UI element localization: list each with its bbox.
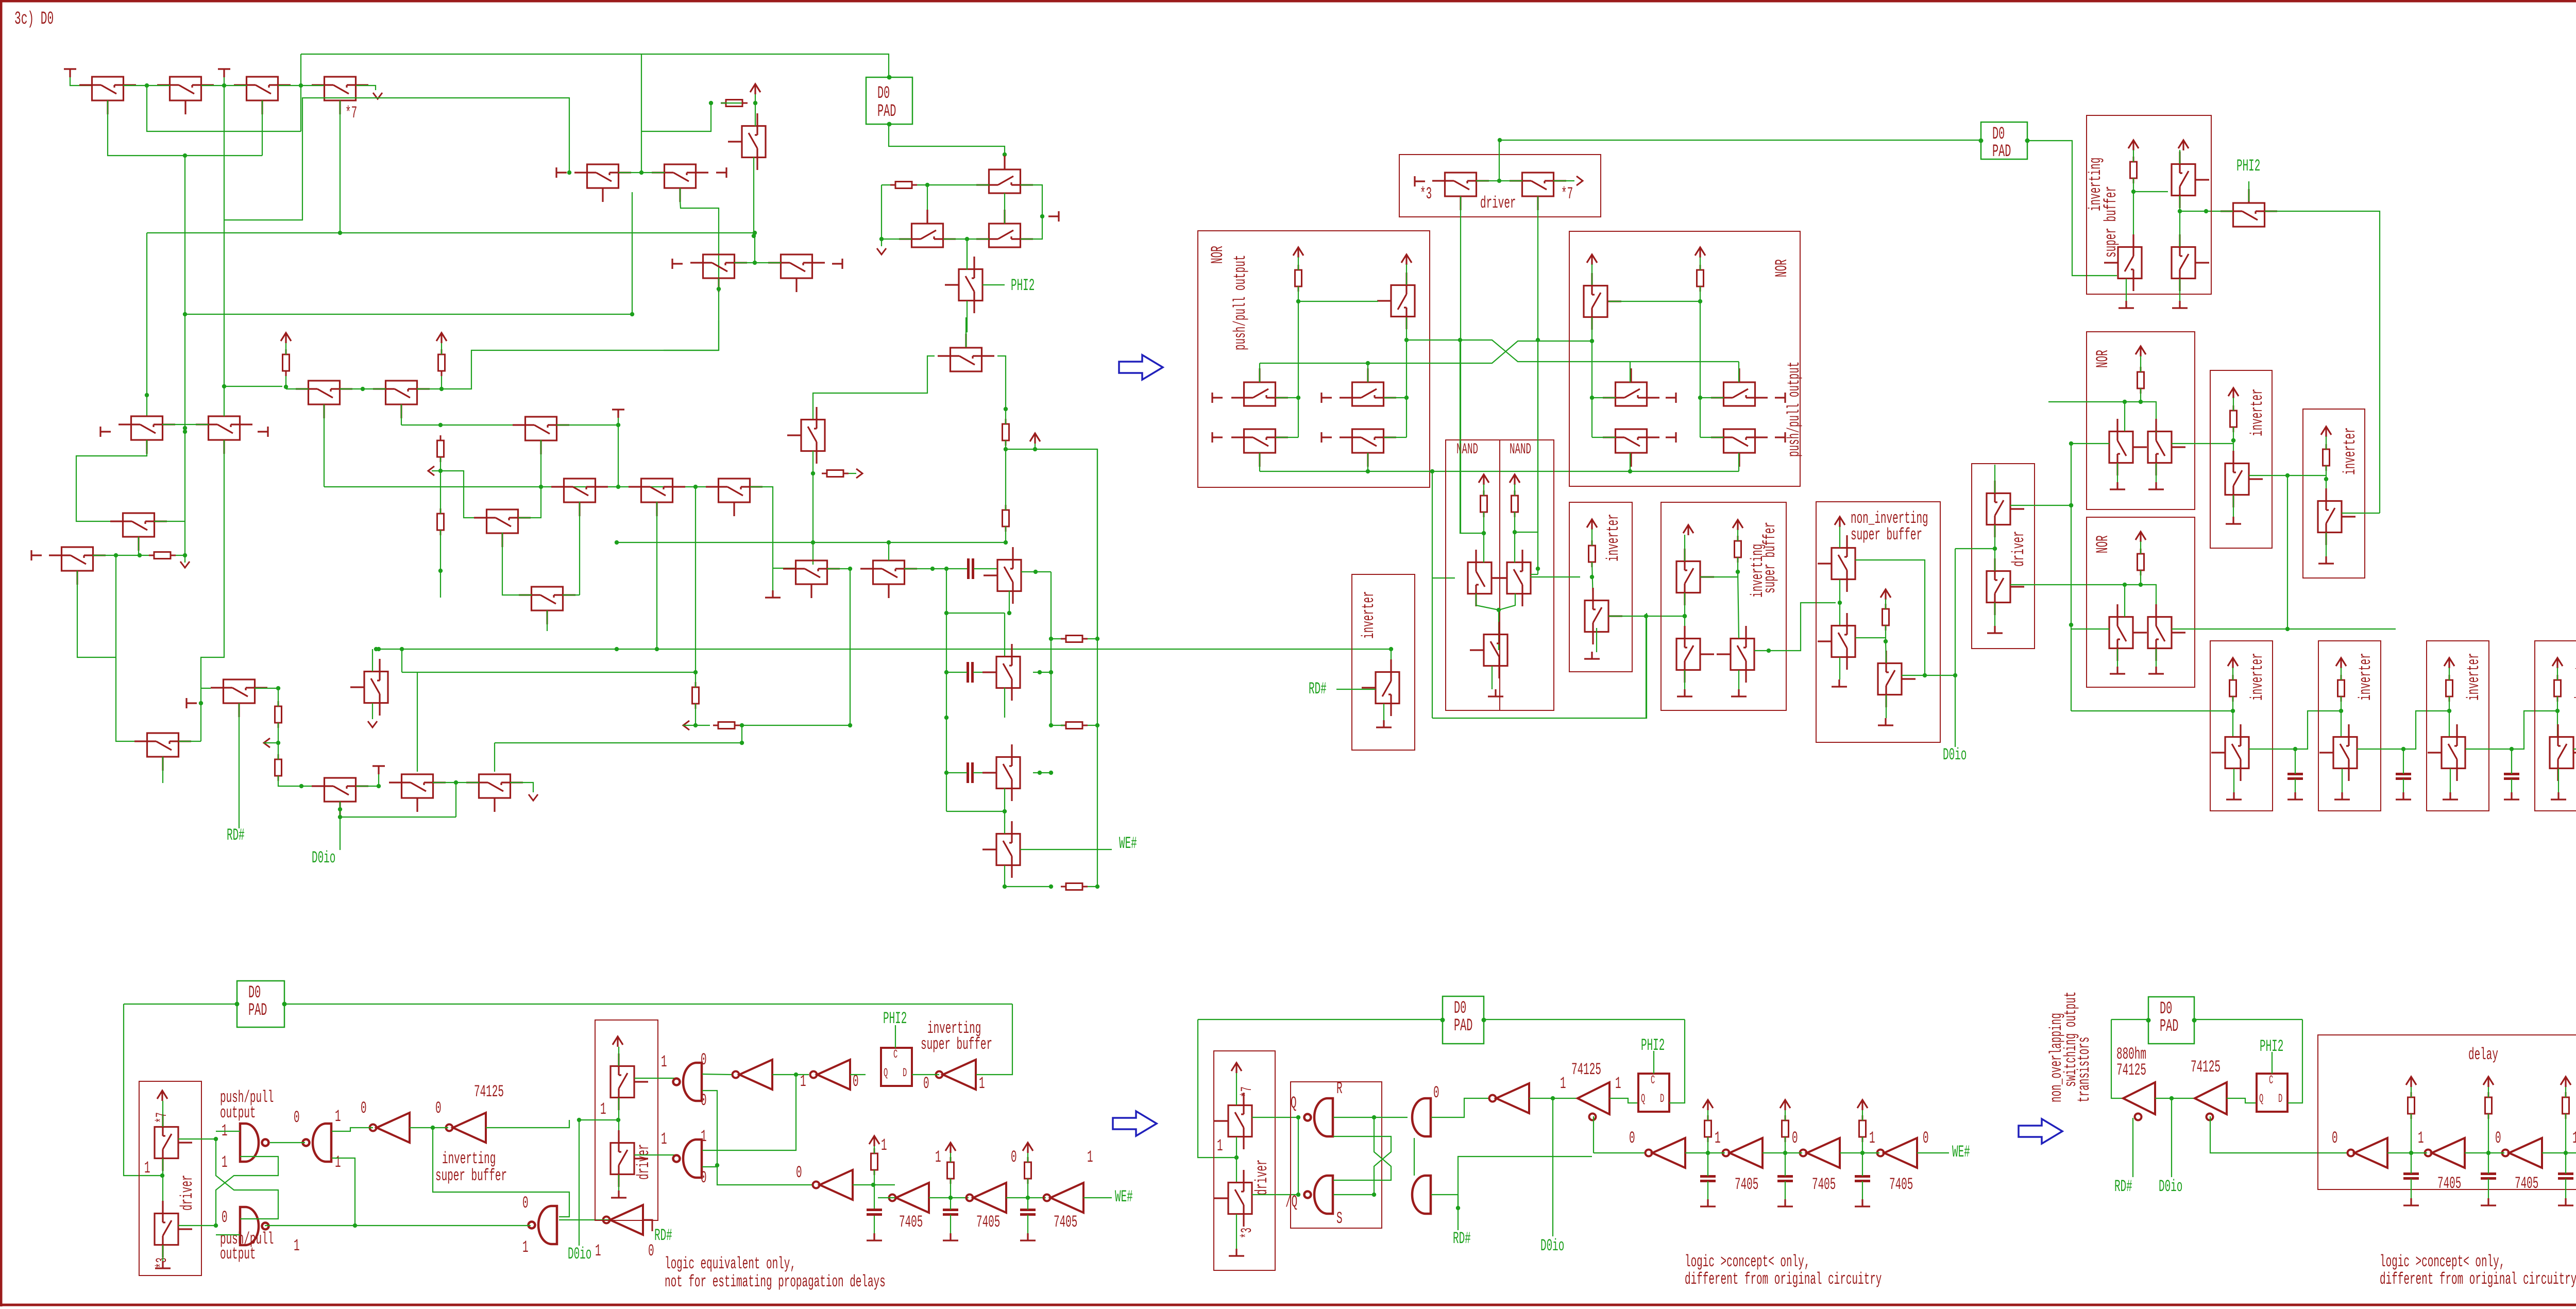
wire g4-ia: [702, 1074, 732, 1075]
ground gnd isb2c: [2172, 301, 2188, 308]
transistor DV2: [155, 1201, 192, 1257]
wire cap bottom: [2511, 779, 2512, 792]
wire ig cap a: [1027, 1198, 1028, 1210]
wire nand2-g3: [265, 1225, 531, 1226]
block outline weinv3 box: [2427, 641, 2489, 811]
wire dx1-dx2: [1236, 1137, 1237, 1182]
svg-text:output: output: [220, 1104, 256, 1123]
pin bar X1 bar: [1666, 393, 1676, 403]
junction: [222, 384, 226, 388]
wire to X2: [1592, 437, 1616, 438]
junction: [1497, 179, 1501, 183]
resistor r id: [871, 1148, 878, 1175]
wire r9 arrow: [849, 473, 856, 474]
wire W2 gate: [1367, 453, 1368, 471]
wire r10 bottom: [278, 723, 279, 743]
wire n1: [1483, 484, 1484, 496]
wire vcc to C: [755, 94, 756, 126]
junction: [2139, 400, 2143, 404]
wire dr2 gnd: [1994, 603, 1995, 626]
svg-text:D0: D0: [248, 983, 261, 1003]
substrate bar cap2: [218, 69, 230, 77]
svg-text:0: 0: [522, 1194, 529, 1213]
junction: [615, 540, 619, 545]
wire j2 cap a: [1785, 1153, 1786, 1176]
junction: [1372, 1115, 1376, 1119]
block outline invm box: [1569, 502, 1632, 672]
transistor V: [1231, 368, 1288, 406]
wire r12 bottom: [695, 704, 696, 725]
wire invm gnd: [1596, 628, 1597, 652]
wire nand1-g2: [270, 1142, 305, 1143]
wire nor2 res b: [1700, 286, 1701, 301]
svg-text:PHI2: PHI2: [1641, 1036, 1665, 1055]
junction: [753, 261, 757, 265]
wire CL2 left: [882, 239, 911, 240]
wire ig r b: [1027, 1179, 1028, 1198]
transistor WEINV3: [2428, 724, 2465, 781]
svg-text:0: 0: [222, 1209, 228, 1227]
junction: [454, 780, 458, 785]
wire x2730 col: [1406, 340, 1407, 437]
wire T2 right: [904, 568, 967, 569]
wire nor4 b: [2140, 570, 2141, 585]
frame top border: [0, 0, 2576, 3]
resistor r ig: [1025, 1157, 1031, 1184]
wire weinv1 gnd: [2233, 769, 2234, 792]
junction: [1389, 647, 1393, 651]
wire D0io drop c: [579, 1120, 580, 1246]
transistor X5: [1584, 273, 1621, 330]
svg-text:*7: *7: [345, 104, 357, 123]
junction: [2069, 441, 2073, 446]
power VCC arrow vcc nor4: [2136, 532, 2146, 542]
svg-text:74125: 74125: [2191, 1058, 2221, 1077]
wire nor3 out: [2172, 443, 2233, 444]
junction: [616, 485, 620, 489]
pin bar D left: [672, 259, 683, 269]
svg-text:D0io: D0io: [2159, 1178, 2182, 1196]
transistor ISB3: [1717, 626, 1754, 683]
resistor r isb2: [2130, 157, 2137, 183]
ground gnd l2: [2481, 1198, 2496, 1205]
capacitor c1: [969, 558, 973, 579]
gate G5: [673, 1140, 702, 1178]
junction: [183, 426, 187, 430]
junction: [222, 83, 226, 88]
wire id r a: [874, 1146, 875, 1153]
wire dv1 out: [178, 1138, 216, 1140]
ground gnd isb3: [1731, 689, 1747, 696]
wire r14 right: [1088, 725, 1097, 726]
svg-text:0: 0: [701, 1169, 707, 1187]
wire dv2 out: [178, 1225, 216, 1226]
wire isb2c gnd: [2179, 279, 2180, 301]
wire cap top: [2511, 749, 2512, 774]
transistor AA: [211, 679, 267, 717]
wire x2780 down: [1432, 471, 1433, 718]
block outline weinv2 box: [2318, 641, 2381, 811]
wire buf3 enable to delay: [2210, 1116, 2347, 1153]
resistor r nisb: [1883, 604, 1889, 631]
wire j3-j4: [1840, 1152, 1879, 1153]
svg-text:D0: D0: [877, 84, 890, 104]
svg-text:7405: 7405: [2437, 1175, 2461, 1193]
svg-text:PHI2: PHI2: [2236, 157, 2260, 176]
wire j2-j3: [1762, 1152, 1802, 1153]
wire to ie: [874, 1184, 895, 1185]
power VCC arrow vcc drv3: [157, 1091, 167, 1101]
junction: [2131, 190, 2136, 194]
wire K out: [417, 388, 442, 389]
svg-text:Q: Q: [1641, 1092, 1645, 1106]
wire long y915: [1260, 471, 1739, 472]
pin bar CL bar: [1048, 211, 1059, 222]
junction: [2231, 438, 2235, 443]
wire r5 left: [882, 184, 890, 185]
wire X0 top: [1406, 264, 1407, 285]
resistor r8: [149, 552, 176, 559]
power VCC arrow vcc nisb: [1835, 517, 1845, 527]
junction: [577, 1118, 581, 1122]
wire F gate to H: [76, 440, 147, 521]
wire dx1 out: [1252, 1117, 1298, 1118]
ground gnd ig: [1020, 1233, 1036, 1240]
junction: [377, 784, 381, 788]
svg-text:output: output: [220, 1245, 256, 1264]
wire B1 bottom: [1004, 688, 1005, 718]
svg-text:inverter: inverter: [2248, 388, 2267, 436]
transistor ISB2B: [2104, 234, 2142, 291]
inverter ID: [813, 1170, 853, 1200]
junction: [1095, 885, 1099, 889]
junction: [199, 701, 203, 705]
resistor r5: [890, 182, 917, 189]
wire x2520 col: [1298, 301, 1299, 437]
wire W out: [1276, 437, 1298, 438]
resistor r1: [283, 349, 290, 376]
wire B3 bottom: [1005, 865, 1051, 887]
wire W gate: [1259, 453, 1260, 471]
wire long net y610: [185, 314, 632, 315]
wire cross4: [1333, 1136, 1391, 1195]
power VCC arrow vcc weinv2: [2336, 658, 2346, 668]
resistor r12: [692, 682, 699, 709]
junction: [1296, 396, 1300, 400]
wire N0 gate: [579, 502, 580, 595]
wire driver node down: [1955, 549, 1956, 675]
svg-text:1: 1: [1217, 1137, 1223, 1155]
svg-text:not for estimating propagation: not for estimating propagation delays: [665, 1273, 886, 1291]
wire lineA right: [1630, 361, 1739, 362]
wire ni3 out: [1902, 675, 1955, 676]
wire isb2a top: [2179, 150, 2180, 164]
transistor NI1: [1818, 535, 1855, 592]
wire r10 top: [278, 688, 279, 706]
wire y1260-y1305 link: [401, 649, 402, 672]
wire pad down left: [124, 1004, 162, 1176]
junction: [1993, 547, 1997, 551]
capacitor c ig: [1020, 1210, 1036, 1215]
ground gnd cap weinv3: [2504, 792, 2519, 800]
wire s out: [1431, 1194, 1458, 1195]
junction: [160, 1174, 164, 1178]
wire S-T2: [827, 568, 850, 569]
wire B1 top: [1004, 613, 1005, 656]
junction: [1456, 1206, 1460, 1210]
wire q1 bottom: [1476, 593, 1499, 610]
capacitor c l2: [2481, 1174, 2496, 1179]
wire D0io stub: [340, 837, 341, 850]
gate G4: [673, 1063, 702, 1101]
transistor G: [196, 416, 252, 454]
wire isb2 mid: [2179, 196, 2180, 247]
junction: [1923, 673, 1927, 677]
wire r6 bottom: [1005, 440, 1006, 449]
wire A loop left: [224, 98, 569, 220]
power VCC arrow vcc weinv4: [2552, 658, 2563, 668]
junction: [183, 553, 187, 557]
wire r14 left: [1051, 725, 1064, 726]
wire i1-i2: [410, 1127, 448, 1128]
wire dr mid: [1994, 525, 1995, 571]
wire R to S: [750, 487, 795, 568]
svg-text:1: 1: [1869, 1129, 1875, 1148]
wire to nandq1: [1432, 577, 1455, 579]
svg-text:0: 0: [2332, 1129, 2338, 1148]
wire nor3 b: [2140, 388, 2141, 402]
wire dw1-dw2: [618, 1098, 619, 1143]
capacitor c l3: [2558, 1174, 2573, 1179]
svg-text:D0io: D0io: [312, 849, 335, 868]
wire ie r a: [950, 1153, 951, 1162]
junction: [1003, 152, 1007, 157]
svg-text:0: 0: [294, 1109, 300, 1127]
junction: [1590, 575, 1594, 579]
svg-text:0: 0: [361, 1099, 367, 1118]
arrow AD gnd: [368, 721, 377, 727]
ground gnd weinv2: [2334, 792, 2350, 800]
arrow gnd arrow: [180, 562, 190, 568]
transistor N: [629, 479, 685, 516]
wire isb2 link: [2133, 191, 2168, 192]
junction: [2069, 503, 2073, 507]
transistor Q: [787, 407, 825, 464]
power VCC arrow vcc drv4: [613, 1036, 623, 1047]
wire J-K: [340, 388, 386, 389]
svg-text:RD#: RD#: [1453, 1230, 1471, 1248]
ground gnd invB: [2318, 556, 2334, 564]
power VCC arrow vcc weinv1: [2228, 658, 2238, 668]
junction: [811, 471, 815, 475]
frame bottom border: [0, 1304, 2576, 1306]
wire nand1 in: [216, 1131, 240, 1132]
junction: [693, 723, 698, 727]
resistor r weinv4: [2554, 675, 2561, 702]
transistor U: [984, 547, 1021, 604]
wire phi2 to P: [966, 301, 967, 347]
resistor r13: [713, 722, 740, 729]
wire u-link: [147, 86, 301, 131]
wire cross3: [1333, 1117, 1391, 1180]
transistor F: [118, 416, 175, 454]
capacitor c weinv3: [2504, 774, 2519, 779]
pin bar W bar: [1212, 432, 1223, 443]
transistor NANDQ1: [1468, 550, 1505, 606]
resistor r l3: [2563, 1092, 2569, 1119]
svg-text:NOR: NOR: [1209, 246, 1227, 264]
resistor r16: [1061, 883, 1088, 890]
capacitor c2: [968, 662, 973, 683]
wire j4 we: [1917, 1152, 1949, 1153]
ground gnd dr2: [1987, 626, 2003, 633]
transistor NOR4A: [2109, 604, 2147, 661]
junction: [1049, 723, 1053, 727]
resistor r2: [438, 349, 445, 376]
junction: [1482, 531, 1486, 535]
wire AB right: [179, 741, 201, 742]
frame left border: [0, 0, 3, 1306]
wire P right down: [997, 356, 1006, 409]
wire nor4 out: [2172, 628, 2396, 630]
junction: [1033, 447, 1037, 451]
wire top net drop: [300, 54, 301, 86]
wire q2 bottom: [1499, 593, 1515, 610]
wire id cap a: [874, 1185, 875, 1210]
svg-text:PAD: PAD: [2160, 1017, 2178, 1036]
wire d0io drop d: [1552, 1098, 1553, 1236]
wire j1 r b: [1707, 1137, 1708, 1153]
wire nor3b top: [2156, 431, 2157, 432]
resistor r10: [275, 701, 282, 728]
svg-text:D: D: [2278, 1092, 2282, 1106]
transistor E: [768, 254, 825, 292]
wire ia-ib: [772, 1074, 809, 1075]
wire ni mid: [1839, 580, 1840, 626]
wire g2-i1: [332, 1128, 373, 1131]
wire l2 cap a: [2488, 1153, 2489, 1174]
wire AF top: [494, 743, 495, 772]
svg-text:push/pull output: push/pull output: [1785, 362, 1804, 457]
junction: [138, 553, 142, 557]
junction: [567, 171, 571, 175]
transistor B1: [982, 644, 1020, 701]
transistor ISB2A: [2172, 151, 2209, 208]
clock element CB3: [2257, 1074, 2287, 1112]
resistor r15: [1061, 636, 1088, 642]
svg-text:RD#: RD#: [654, 1227, 672, 1245]
wire trunk x435: [224, 86, 225, 416]
junction: [1033, 570, 1038, 574]
resistor r3: [437, 435, 444, 462]
arrow AF arrow: [529, 794, 538, 801]
wire nor3b gnd: [2156, 463, 2157, 482]
wire isb r b: [1737, 557, 1738, 572]
junction: [338, 815, 342, 819]
transistor d2: [1510, 173, 1566, 210]
resistor rC: [721, 100, 748, 107]
junction: [615, 647, 619, 651]
block outline invB box: [2303, 409, 2365, 578]
power VCC arrow vcc ig: [1023, 1143, 1033, 1153]
svg-text:PHI2: PHI2: [1011, 277, 1035, 295]
transistor INVA: [2225, 451, 2263, 507]
power VCC arrow vcc id: [869, 1136, 879, 1146]
wire r-s link: [1414, 1138, 1415, 1176]
wire P top: [965, 317, 967, 347]
wire phi2b stub: [2248, 181, 2249, 201]
power VCC arrow vcc nor1b: [1401, 254, 1412, 265]
junction: [438, 569, 443, 573]
svg-text:driver: driver: [635, 1144, 653, 1180]
junction: [2339, 709, 2343, 713]
inverter IE: [889, 1183, 929, 1213]
junction: [930, 567, 935, 571]
transistor B: [652, 164, 708, 202]
wire l3 cap b: [2565, 1179, 2566, 1198]
junction: [944, 611, 948, 615]
pin bar B right: [716, 167, 726, 178]
clock element CB2: [1638, 1074, 1669, 1112]
svg-text:Q: Q: [1291, 1094, 1297, 1113]
junction: [1683, 614, 1687, 618]
junction: [1536, 567, 1540, 571]
wire cross2: [216, 1157, 278, 1226]
junction: [1683, 614, 1687, 618]
junction: [374, 647, 378, 651]
transistor WEINV1: [2211, 724, 2249, 781]
wire isb r a: [1737, 530, 1738, 541]
wire weinv3 b: [2449, 696, 2450, 738]
svg-text:C: C: [1651, 1074, 1655, 1087]
junction: [2510, 747, 2514, 751]
svg-text:Q: Q: [2259, 1092, 2263, 1106]
wire K out up right: [442, 350, 719, 389]
wire lineB: [1260, 341, 1592, 363]
wire x225 trunk: [116, 555, 147, 741]
wire l3 r a: [2565, 1087, 2566, 1097]
svg-text:7405: 7405: [976, 1213, 1000, 1232]
svg-text:1: 1: [2572, 1129, 2576, 1148]
arrow left arr1: [428, 466, 434, 475]
wire AD top: [372, 649, 373, 671]
wire nor3a gnd: [2117, 463, 2118, 482]
pin bar G right: [258, 427, 268, 437]
junction: [1404, 338, 1409, 342]
transistor ISB2C: [2172, 234, 2209, 291]
junction: [2139, 583, 2143, 587]
junction: [811, 540, 815, 545]
wire weinv4 a: [2557, 668, 2558, 680]
junction: [1536, 338, 1540, 342]
block outline weinv1 box: [2210, 641, 2273, 811]
wire CL2-CL3: [943, 239, 989, 240]
junction: [2123, 583, 2127, 587]
inverter J2: [1723, 1138, 1763, 1168]
junction: [2293, 747, 2297, 751]
wire r5 right: [917, 184, 989, 185]
junction: [1372, 1193, 1376, 1197]
junction: [630, 312, 634, 316]
wire I gate: [77, 571, 116, 657]
transistor NANDQ2: [1493, 550, 1531, 606]
ground gnd invm: [1584, 652, 1600, 659]
wire nor4a top: [2124, 585, 2125, 617]
junction: [1004, 407, 1008, 411]
junction: [2069, 623, 2073, 627]
svg-text:PAD: PAD: [248, 1001, 267, 1021]
wire cap2 stub: [224, 77, 225, 86]
